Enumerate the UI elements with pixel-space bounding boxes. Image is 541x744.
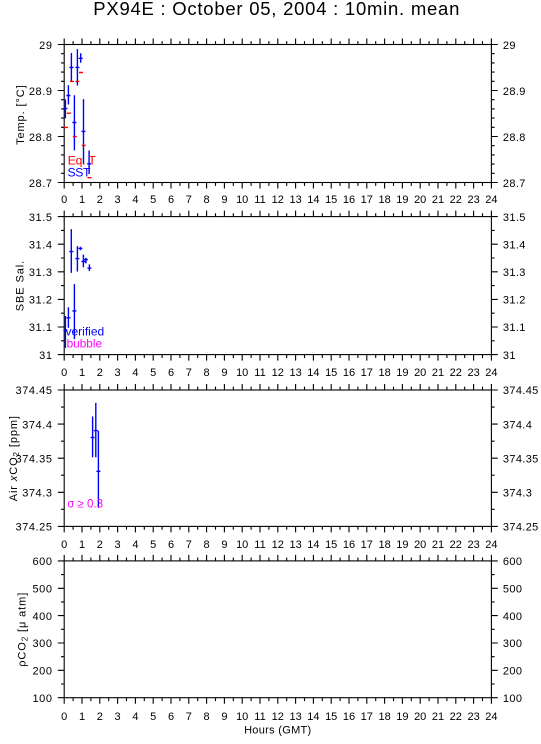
svg-text:16: 16 xyxy=(343,539,355,551)
svg-text:1: 1 xyxy=(79,711,85,723)
svg-text:21: 21 xyxy=(432,194,444,206)
svg-text:4: 4 xyxy=(132,539,138,551)
svg-text:Hours (GMT): Hours (GMT) xyxy=(244,724,311,736)
svg-text:23: 23 xyxy=(467,539,479,551)
svg-text:31.4: 31.4 xyxy=(29,239,53,251)
svg-text:2: 2 xyxy=(97,539,103,551)
svg-text:σ ≥ 0.3: σ ≥ 0.3 xyxy=(67,499,103,511)
svg-text:14: 14 xyxy=(307,711,319,723)
svg-text:bubble: bubble xyxy=(67,337,103,351)
svg-text:10: 10 xyxy=(236,539,248,551)
svg-text:2: 2 xyxy=(97,711,103,723)
svg-text:20: 20 xyxy=(414,194,426,206)
svg-text:ρCO2 [μ atm]: ρCO2 [μ atm] xyxy=(16,592,29,667)
svg-text:20: 20 xyxy=(414,711,426,723)
svg-text:13: 13 xyxy=(289,539,301,551)
svg-text:600: 600 xyxy=(503,556,522,568)
svg-text:15: 15 xyxy=(325,711,337,723)
svg-text:17: 17 xyxy=(361,367,373,379)
svg-text:8: 8 xyxy=(204,711,210,723)
svg-text:31.2: 31.2 xyxy=(503,295,526,307)
svg-text:16: 16 xyxy=(343,367,355,379)
svg-text:22: 22 xyxy=(450,711,462,723)
svg-text:4: 4 xyxy=(132,711,138,723)
svg-text:23: 23 xyxy=(467,367,479,379)
svg-text:28.8: 28.8 xyxy=(29,132,53,144)
svg-text:100: 100 xyxy=(32,693,52,705)
svg-text:29: 29 xyxy=(39,40,52,52)
svg-text:3: 3 xyxy=(115,711,121,723)
svg-text:200: 200 xyxy=(32,666,52,678)
svg-text:PX94E : October 05, 2004 : 10m: PX94E : October 05, 2004 : 10min. mean xyxy=(93,0,460,19)
svg-text:19: 19 xyxy=(396,194,408,206)
svg-text:12: 12 xyxy=(272,367,284,379)
svg-text:13: 13 xyxy=(289,194,301,206)
svg-text:12: 12 xyxy=(272,539,284,551)
svg-text:1: 1 xyxy=(79,194,85,206)
svg-text:21: 21 xyxy=(432,539,444,551)
svg-text:374.4: 374.4 xyxy=(22,419,52,431)
svg-text:200: 200 xyxy=(503,666,522,678)
svg-text:10: 10 xyxy=(236,367,248,379)
SST error bars (panel 1, blue) xyxy=(63,49,91,174)
svg-text:18: 18 xyxy=(378,194,390,206)
svg-text:31.3: 31.3 xyxy=(29,267,53,279)
y axis titles xyxy=(8,84,29,666)
svg-text:5: 5 xyxy=(150,367,156,379)
svg-text:31.1: 31.1 xyxy=(29,322,53,334)
svg-text:31.5: 31.5 xyxy=(29,212,53,224)
legend panel 1 xyxy=(68,153,97,179)
svg-text:12: 12 xyxy=(272,711,284,723)
svg-text:374.3: 374.3 xyxy=(503,488,532,500)
svg-text:16: 16 xyxy=(343,194,355,206)
salinity error bars (panel 2, blue) xyxy=(63,229,91,348)
svg-text:6: 6 xyxy=(168,194,174,206)
svg-text:31.1: 31.1 xyxy=(503,322,526,334)
svg-text:2: 2 xyxy=(97,367,103,379)
svg-text:16: 16 xyxy=(343,711,355,723)
svg-text:19: 19 xyxy=(396,367,408,379)
svg-text:0: 0 xyxy=(61,194,67,206)
svg-text:374.35: 374.35 xyxy=(16,453,53,465)
svg-text:14: 14 xyxy=(307,539,319,551)
svg-text:300: 300 xyxy=(32,638,52,650)
svg-text:374.45: 374.45 xyxy=(503,385,539,397)
svg-text:22: 22 xyxy=(450,539,462,551)
svg-text:13: 13 xyxy=(289,367,301,379)
y tick labels panel 3 xyxy=(16,385,539,533)
svg-text:22: 22 xyxy=(450,194,462,206)
panel 4 box (pCO2) xyxy=(64,561,491,698)
svg-text:28.9: 28.9 xyxy=(503,86,526,98)
svg-text:8: 8 xyxy=(204,367,210,379)
x tick labels panel 4 xyxy=(61,711,497,723)
svg-text:31: 31 xyxy=(503,350,516,362)
svg-text:23: 23 xyxy=(467,711,479,723)
svg-text:9: 9 xyxy=(221,711,227,723)
svg-text:0: 0 xyxy=(61,539,67,551)
svg-text:500: 500 xyxy=(32,584,52,596)
svg-text:7: 7 xyxy=(186,711,192,723)
svg-text:600: 600 xyxy=(32,556,52,568)
svg-text:29: 29 xyxy=(503,40,516,52)
svg-text:20: 20 xyxy=(414,539,426,551)
svg-text:10: 10 xyxy=(236,711,248,723)
svg-text:SBE Sal.: SBE Sal. xyxy=(15,260,27,311)
svg-text:11: 11 xyxy=(254,194,265,206)
svg-text:15: 15 xyxy=(325,367,337,379)
svg-text:13: 13 xyxy=(289,711,301,723)
svg-text:374.35: 374.35 xyxy=(503,453,539,465)
svg-text:20: 20 xyxy=(414,367,426,379)
svg-text:400: 400 xyxy=(32,611,52,623)
svg-text:1: 1 xyxy=(79,539,85,551)
svg-text:SST: SST xyxy=(68,166,91,180)
svg-text:10: 10 xyxy=(236,194,248,206)
svg-text:5: 5 xyxy=(150,539,156,551)
axis ticks (all panels) xyxy=(58,39,498,704)
svg-text:500: 500 xyxy=(503,584,522,596)
svg-text:9: 9 xyxy=(221,367,227,379)
panel 2 box (SBE Sal) xyxy=(64,217,491,355)
svg-text:7: 7 xyxy=(186,194,192,206)
svg-text:0: 0 xyxy=(61,711,67,723)
svg-text:18: 18 xyxy=(378,367,390,379)
panel 3 box (Air xCO2) xyxy=(64,390,491,526)
svg-text:Temp. [°C]: Temp. [°C] xyxy=(15,84,27,144)
svg-text:6: 6 xyxy=(168,367,174,379)
x tick labels panel 3 xyxy=(61,539,497,551)
svg-text:17: 17 xyxy=(361,711,373,723)
svg-text:24: 24 xyxy=(485,367,497,379)
svg-text:3: 3 xyxy=(115,539,121,551)
y tick labels panel 4 xyxy=(32,556,522,705)
svg-text:17: 17 xyxy=(361,194,373,206)
svg-text:11: 11 xyxy=(254,539,265,551)
svg-text:28.7: 28.7 xyxy=(29,178,53,190)
svg-text:28.7: 28.7 xyxy=(503,178,526,190)
svg-text:31: 31 xyxy=(39,350,52,362)
svg-text:400: 400 xyxy=(503,611,522,623)
svg-text:11: 11 xyxy=(254,711,265,723)
svg-text:0: 0 xyxy=(61,367,67,379)
legend panel 2 xyxy=(66,325,105,351)
svg-text:6: 6 xyxy=(168,711,174,723)
svg-text:31.3: 31.3 xyxy=(503,267,526,279)
svg-text:19: 19 xyxy=(396,711,408,723)
svg-text:18: 18 xyxy=(378,711,390,723)
svg-text:4: 4 xyxy=(132,367,138,379)
svg-text:14: 14 xyxy=(307,194,319,206)
svg-text:1: 1 xyxy=(79,367,85,379)
svg-text:11: 11 xyxy=(254,367,265,379)
svg-text:24: 24 xyxy=(485,711,497,723)
svg-text:8: 8 xyxy=(204,539,210,551)
svg-text:7: 7 xyxy=(186,539,192,551)
panel 1 box (Temp) xyxy=(64,45,491,183)
svg-text:18: 18 xyxy=(378,539,390,551)
svg-text:24: 24 xyxy=(485,194,497,206)
svg-text:15: 15 xyxy=(325,539,337,551)
svg-text:31.4: 31.4 xyxy=(503,239,526,251)
svg-text:23: 23 xyxy=(467,194,479,206)
svg-text:6: 6 xyxy=(168,539,174,551)
svg-text:5: 5 xyxy=(150,194,156,206)
svg-text:21: 21 xyxy=(432,711,444,723)
y tick labels panel 2 xyxy=(29,212,526,362)
x tick labels panel 2 xyxy=(61,367,497,379)
svg-text:300: 300 xyxy=(503,638,522,650)
svg-text:28.8: 28.8 xyxy=(503,132,526,144)
svg-text:7: 7 xyxy=(186,367,192,379)
x tick labels panel 1 xyxy=(61,194,497,206)
svg-text:31.2: 31.2 xyxy=(29,295,53,307)
svg-text:374.3: 374.3 xyxy=(22,488,52,500)
svg-text:19: 19 xyxy=(396,539,408,551)
Eq.T points (panel 1, red dashes) xyxy=(64,73,92,178)
svg-text:28.9: 28.9 xyxy=(29,86,53,98)
svg-text:374.25: 374.25 xyxy=(503,522,539,534)
svg-text:24: 24 xyxy=(485,539,497,551)
svg-text:14: 14 xyxy=(307,367,319,379)
svg-text:9: 9 xyxy=(221,194,227,206)
svg-text:3: 3 xyxy=(115,194,121,206)
svg-text:15: 15 xyxy=(325,194,337,206)
svg-text:374.4: 374.4 xyxy=(503,419,532,431)
svg-text:12: 12 xyxy=(272,194,284,206)
svg-text:5: 5 xyxy=(150,711,156,723)
svg-text:22: 22 xyxy=(450,367,462,379)
svg-text:100: 100 xyxy=(503,693,522,705)
svg-text:9: 9 xyxy=(221,539,227,551)
svg-text:374.25: 374.25 xyxy=(16,522,53,534)
svg-text:8: 8 xyxy=(204,194,210,206)
svg-text:3: 3 xyxy=(115,367,121,379)
svg-text:2: 2 xyxy=(97,194,103,206)
svg-text:31.5: 31.5 xyxy=(503,212,526,224)
svg-text:17: 17 xyxy=(361,539,373,551)
svg-text:21: 21 xyxy=(432,367,444,379)
svg-text:374.45: 374.45 xyxy=(16,385,53,397)
y tick labels panel 1 xyxy=(29,40,526,190)
svg-text:4: 4 xyxy=(132,194,138,206)
svg-text:Air xCO2 [ppm]: Air xCO2 [ppm] xyxy=(8,415,21,501)
xCO2 error bars (panel 3, blue) xyxy=(91,403,101,508)
